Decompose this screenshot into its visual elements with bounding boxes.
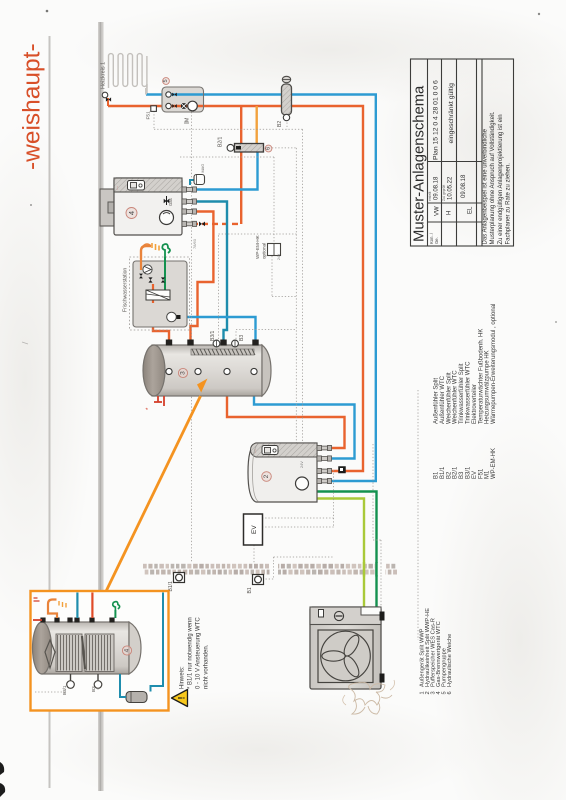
svg-text:F51: F51 — [478, 468, 484, 479]
svg-text:nicht vorhanden.: nicht vorhanden. — [204, 644, 210, 689]
svg-text:6: 6 — [447, 691, 453, 694]
svg-text:EV: EV — [472, 471, 478, 479]
svg-text:24V: 24V — [277, 253, 281, 260]
svg-text:B1: B1 — [434, 471, 440, 479]
svg-text:Muster-Anlagenschema: Muster-Anlagenschema — [412, 85, 428, 242]
svg-text:4: 4 — [124, 648, 131, 652]
svg-text:Gas: Gas — [168, 198, 173, 206]
svg-text:VW: VW — [435, 206, 441, 216]
svg-text:WP-EM-HK: WP-EM-HK — [491, 448, 497, 479]
svg-text:M: M — [185, 118, 191, 122]
svg-text:B3: B3 — [459, 471, 465, 479]
svg-text:Zul. geprüft: Zul. geprüft — [442, 185, 446, 201]
svg-text:B3/1: B3/1 — [62, 685, 67, 695]
svg-text:B3/1: B3/1 — [210, 330, 216, 341]
svg-text:09.08.18: 09.08.18 — [461, 174, 467, 198]
svg-text:B2/1: B2/1 — [218, 136, 224, 147]
svg-text:F51: F51 — [146, 111, 152, 120]
svg-text:4: 4 — [127, 211, 136, 215]
svg-text:24V: 24V — [300, 461, 304, 468]
svg-text:MAG: MAG — [201, 164, 205, 173]
svg-text:Hydraulische Weiche: Hydraulische Weiche — [447, 634, 453, 687]
svg-text:Ge.: Ge. — [434, 237, 439, 244]
svg-text:3: 3 — [180, 371, 187, 375]
svg-text:Heizkreis 1: Heizkreis 1 — [101, 62, 107, 89]
svg-text:EL: EL — [468, 206, 474, 214]
svg-text:2: 2 — [263, 474, 270, 478]
svg-text:Heizungsumwälzpumpe HK: Heizungsumwälzpumpe HK — [485, 350, 491, 424]
svg-text:Das Anlagenbeispiel ist eine u: Das Anlagenbeispiel ist eine unverbindli… — [483, 128, 489, 244]
svg-text:6: 6 — [266, 147, 272, 150]
svg-text:···: ··· — [115, 186, 120, 190]
svg-text:78/60: 78/60 — [192, 238, 197, 249]
svg-text:B2: B2 — [446, 471, 452, 479]
svg-text:Frischwasserstation: Frischwasserstation — [123, 268, 129, 312]
svg-text:EV: EV — [251, 525, 258, 534]
svg-text:erstellt: erstellt — [428, 191, 432, 201]
svg-text:0 - 10 V Ansteuerung WTC: 0 - 10 V Ansteuerung WTC — [196, 617, 202, 689]
svg-text:Hinweis:: Hinweis: — [180, 666, 186, 689]
svg-text:Temperaturwächter Fußbodenh. H: Temperaturwächter Fußbodenh. HK — [478, 329, 484, 424]
svg-text:Elektroverteiler: Elektroverteiler — [472, 384, 478, 424]
svg-text:Fachplaner zu Rate zu ziehen.: Fachplaner zu Rate zu ziehen. — [506, 163, 512, 245]
svg-text:···: ··· — [253, 449, 258, 453]
svg-text:Weichenfühler WTC: Weichenfühler WTC — [453, 370, 459, 424]
svg-text:B1: B1 — [247, 587, 253, 593]
svg-text:Trinkwasserfühler Split: Trinkwasserfühler Split — [459, 363, 465, 424]
svg-text:Weichenfühler Split: Weichenfühler Split — [446, 372, 452, 424]
svg-text:B3/1: B3/1 — [466, 466, 472, 479]
svg-text:5: 5 — [163, 79, 169, 82]
svg-text:Plan 15 12 0 4 28 01 0 0 6: Plan 15 12 0 4 28 01 0 0 6 — [433, 80, 440, 160]
svg-text:H: H — [447, 211, 453, 215]
svg-text:10.05.22: 10.05.22 — [448, 176, 454, 200]
svg-text:M1: M1 — [485, 470, 491, 479]
svg-text:B2/1: B2/1 — [453, 466, 459, 479]
svg-text:WP-EM-HK: WP-EM-HK — [255, 234, 260, 259]
svg-text:B3: B3 — [239, 335, 245, 341]
svg-text:Wärmepumpen-Erweiterungsmodul: Wärmepumpen-Erweiterungsmodul , optional — [491, 304, 497, 424]
svg-text:optional: optional — [262, 243, 267, 259]
svg-text:09.08.18: 09.08.18 — [434, 176, 440, 200]
svg-text:* B1/1 nur notwendig wenn: * B1/1 nur notwendig wenn — [188, 617, 194, 689]
svg-text:Außenfühler WTC: Außenfühler WTC — [440, 375, 446, 424]
svg-text:Musterplanung ohne Anspruch au: Musterplanung ohne Anspruch auf Vollstän… — [490, 111, 496, 244]
svg-text:eingeschränkt gültig: eingeschränkt gültig — [448, 83, 455, 144]
svg-text:-weishaupt-: -weishaupt- — [19, 43, 46, 170]
svg-text:Zu einer endgültigen Anlagenpr: Zu einer endgültigen Anlagenprojektierun… — [498, 114, 504, 244]
svg-text:Außenfühler Split: Außenfühler Split — [434, 378, 440, 424]
svg-text:Trinkwasserfühler WTC: Trinkwasserfühler WTC — [466, 361, 472, 424]
svg-text:B1/1: B1/1 — [440, 466, 446, 479]
svg-text:B2: B2 — [277, 121, 283, 127]
svg-text:!: ! — [177, 697, 187, 700]
svg-text:B3: B3 — [91, 686, 96, 692]
